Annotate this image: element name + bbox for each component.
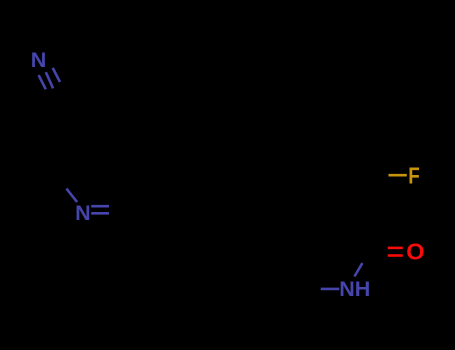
bond C-F <box>389 174 407 177</box>
triple bond C#N line 3 (right) <box>53 68 60 82</box>
double bond N=C bottom line <box>91 212 109 215</box>
double bond C=O bottom line <box>388 254 403 257</box>
svg-text:O: O <box>406 239 424 265</box>
svg-text:N: N <box>75 201 91 225</box>
bond N-C(=O) up-right from NH <box>354 263 362 276</box>
bond C-N left of NH <box>321 288 340 291</box>
svg-text:F: F <box>408 164 420 189</box>
double bond N=C top line <box>91 205 109 208</box>
double bond C=O top line <box>388 247 403 250</box>
bond C-N into pyridine N from upper left <box>66 189 77 203</box>
triple bond C#N line 2 (middle) <box>46 72 53 88</box>
triple bond C#N line 1 (left) <box>39 75 46 89</box>
svg-text:N: N <box>31 48 47 72</box>
svg-text:NH: NH <box>339 277 370 301</box>
